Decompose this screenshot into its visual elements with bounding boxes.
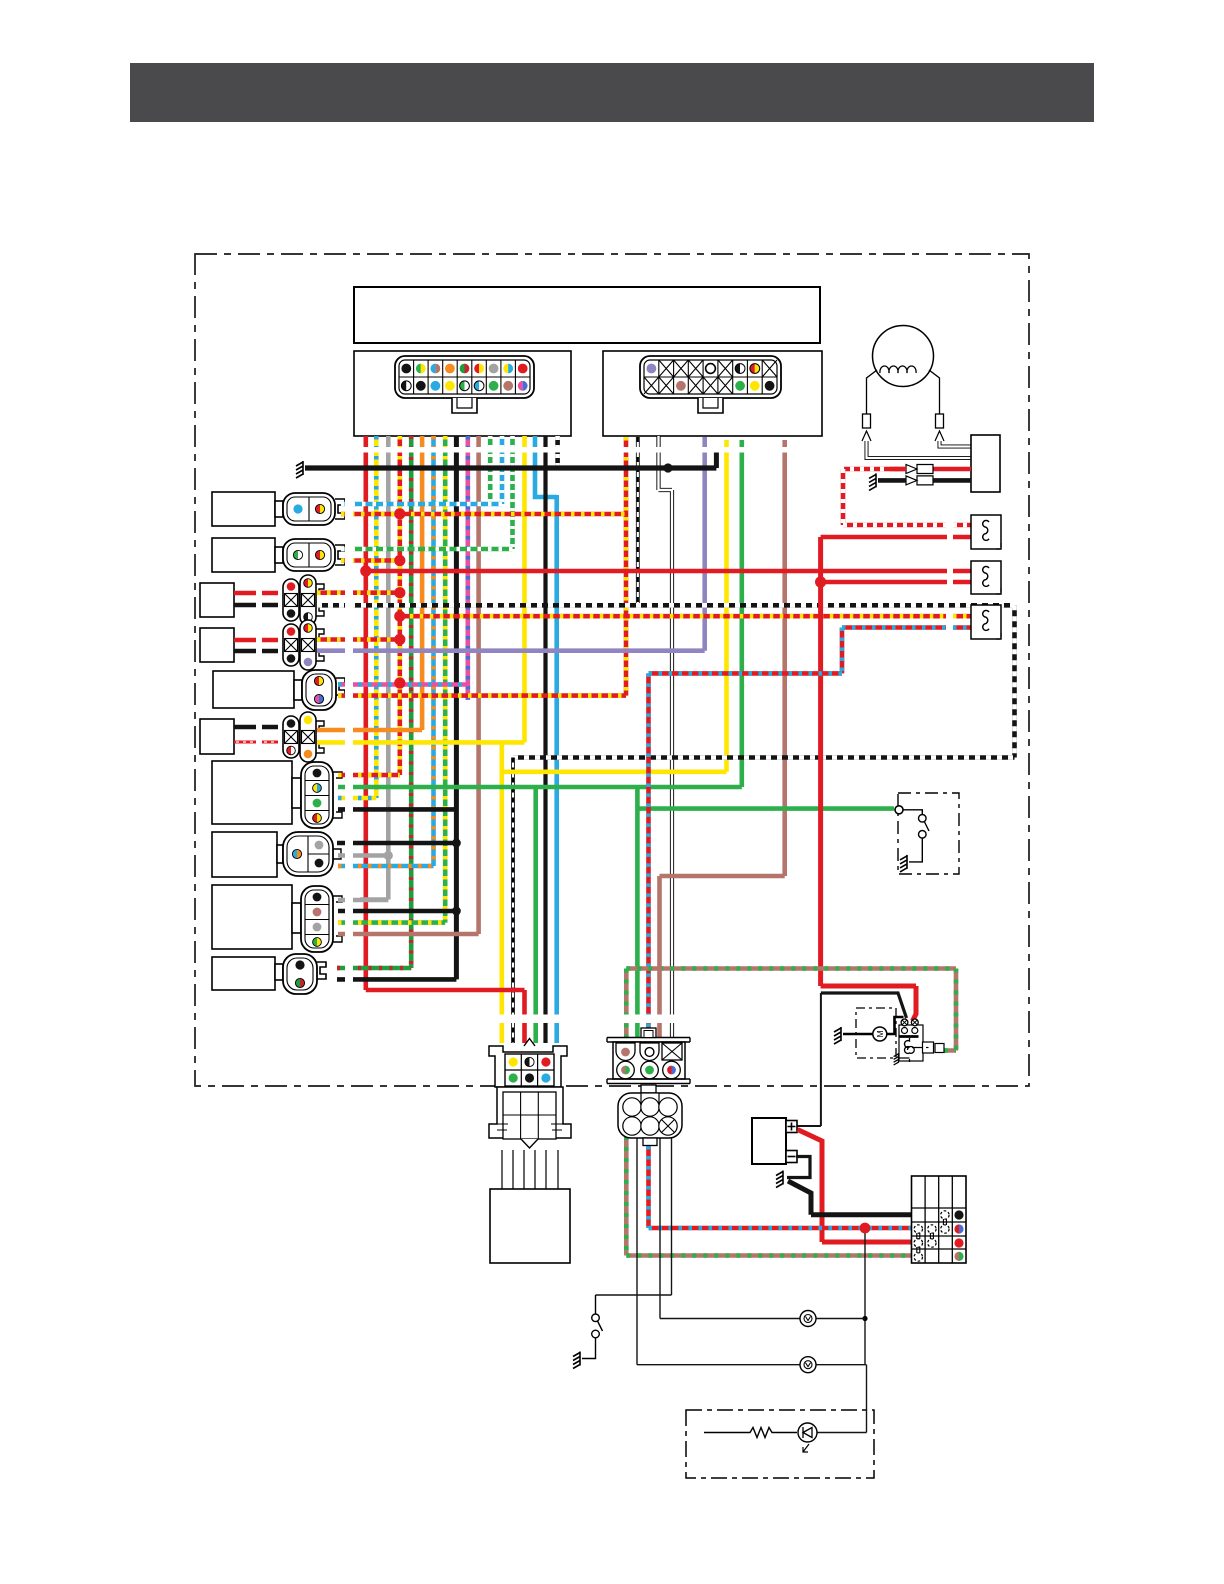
wire L vertical: [554, 495, 559, 1043]
ECU box: [354, 287, 820, 343]
ground starter relay: [894, 1053, 899, 1065]
component 9 connector: [301, 886, 333, 952]
engine stop switch: [595, 1295, 597, 1314]
wire R to coil 1: [821, 535, 971, 540]
resistor: [704, 1428, 797, 1438]
lead wires component 4: [234, 638, 278, 642]
wire Y/L component 7: [338, 796, 376, 801]
wire Br/G starter relay: [626, 969, 956, 1051]
wire B/W to joint connector: [511, 758, 515, 1044]
wire G to neutral switch: [637, 806, 894, 811]
junction Gy bus: [384, 851, 393, 860]
wire Br link: [660, 874, 785, 879]
wire P/L component 5: [338, 682, 468, 687]
wire R rectifier stub: [933, 467, 971, 472]
wire L vertical jog: [535, 436, 557, 497]
fuse box pin Br/G: [954, 1252, 959, 1261]
wire Or bus: [420, 436, 425, 730]
wire B component 7: [338, 807, 456, 812]
ECU connector B tab: [698, 398, 723, 413]
wire B engine stop switch: [596, 1136, 672, 1295]
wire W generator left: [867, 441, 972, 458]
component box 10: [212, 957, 275, 990]
junction B bus: [452, 839, 461, 848]
coupler lower bracket: [607, 1079, 690, 1084]
component box 2 (sensor): [212, 538, 275, 572]
wire R to starter relay: [821, 986, 916, 1021]
indicator lamp 1: [800, 1311, 816, 1327]
wire Gy link: [360, 897, 388, 902]
generator lead right: [929, 370, 940, 414]
ECU connector B box: [603, 351, 822, 436]
wire R/L to coil 3: [842, 625, 971, 630]
ground battery: [776, 1171, 783, 1188]
starter relay: [887, 1017, 904, 1034]
ground starter motor: [834, 1027, 841, 1044]
fuse 1: [914, 1225, 922, 1233]
generator lead left: [867, 370, 878, 414]
neutral switch box: [898, 793, 959, 874]
wire R red bus: [363, 436, 368, 990]
fuse box pin B: [954, 1210, 963, 1219]
wire Y/L bus: [374, 436, 379, 798]
component box 1 (sensor): [212, 492, 275, 526]
component box 6: [200, 719, 234, 754]
wire G/Y component 9: [338, 920, 445, 925]
ECU connector B pins row 1: [647, 364, 657, 374]
wire G/R bus: [409, 436, 414, 968]
wire R/Y bus: [397, 436, 402, 775]
wire Gy component 8: [338, 853, 388, 858]
generator coil: [880, 366, 916, 373]
component box 4: [200, 628, 234, 662]
component box 9: [212, 885, 292, 949]
joint connector lower housing: [489, 1087, 571, 1138]
component box 3: [200, 583, 234, 617]
component 7 connector: [301, 762, 333, 828]
ground neutral switch: [900, 855, 907, 872]
junction lamp feed: [862, 1316, 867, 1321]
component box 7: [212, 761, 292, 824]
wire Br/G vertical: [624, 969, 629, 1038]
junction R bus: [360, 565, 371, 576]
wire B battery positive: [798, 993, 821, 1126]
wire Br/G to fuse box: [626, 1136, 911, 1256]
coupler pins row 2: [617, 1061, 635, 1079]
coupler pins row 1: [616, 1043, 635, 1061]
ECU connector A pin housing: [395, 356, 534, 398]
wire G/W component 2: [341, 547, 513, 552]
wire Y to joint connector: [499, 742, 504, 1043]
neutral switch contacts: [919, 815, 927, 823]
wire R bullet lead: [890, 467, 906, 472]
wire Ch purple vertical: [702, 437, 707, 651]
ground rectifier: [869, 473, 876, 490]
wire R/Y component 7: [338, 773, 400, 778]
wire B component 8: [337, 841, 456, 846]
wire G to joint connector: [533, 787, 538, 1043]
coupler upper bracket: [607, 1038, 690, 1043]
wire B component 9: [338, 909, 456, 914]
ECU connector B pin housing: [640, 356, 781, 398]
wire B starter relay: [821, 993, 907, 1018]
wire W generator right: [940, 441, 972, 447]
bullet connector starter: [923, 1042, 934, 1053]
wire B/W stub: [555, 436, 560, 470]
wire R to joint connector: [366, 990, 525, 1043]
svg-text:M: M: [875, 1030, 885, 1037]
fuse main: [941, 1211, 949, 1219]
wire R to coil 2: [366, 569, 971, 574]
ECU connector A pins row 2: [401, 381, 406, 391]
wire Ch component 4: [317, 648, 705, 653]
wire L/W vertical: [500, 436, 505, 504]
wire R/L link: [649, 628, 843, 674]
joint connector pins top row: [509, 1057, 518, 1066]
wire L/Or bus: [431, 436, 436, 866]
component 3 connector: [283, 579, 299, 621]
device box below joint connector: [490, 1189, 570, 1263]
fuse box pin R: [954, 1238, 963, 1247]
wire B ground to fuse box: [788, 1181, 912, 1215]
title banner: [130, 63, 1094, 122]
battery positive terminal: [786, 1121, 797, 1133]
wire Br bus: [476, 436, 481, 934]
wire B battery negative: [787, 1157, 810, 1178]
wire Gy bus: [386, 436, 391, 900]
wire B lamp 1: [660, 1136, 865, 1319]
wire L/Or component 8: [338, 864, 434, 869]
wire G/W stub: [488, 436, 493, 500]
wire R/L to fuse box: [649, 1136, 912, 1228]
wire B rectifier stub: [933, 478, 971, 483]
fuse 3: [928, 1225, 936, 1233]
component 2 connector: [283, 539, 335, 571]
wire B lamp 2: [637, 1136, 867, 1365]
wire B riser: [714, 451, 719, 468]
wire Y component 6: [317, 740, 525, 745]
component box 5 (injector): [213, 671, 294, 708]
wire R main feed vertical: [818, 537, 823, 986]
wire R/Y component 1: [341, 512, 626, 517]
wire L/W component 1: [341, 502, 502, 507]
ECU connector A box: [354, 351, 571, 436]
ground main bus: [296, 461, 303, 478]
wire Br vertical right: [782, 440, 787, 876]
component 5 connector: [302, 670, 336, 710]
starter motor: [843, 1033, 873, 1036]
wire B/W component 3 loop: [317, 605, 1015, 757]
battery negative terminal: [786, 1151, 797, 1163]
bullet connector black: [906, 476, 933, 485]
component box 8: [212, 832, 277, 877]
component 6 connector: [283, 716, 299, 758]
junction R/Y bus dots: [394, 508, 405, 519]
starter motor box: [856, 1008, 896, 1058]
wire G component 7: [338, 785, 742, 790]
wire G vertical right: [739, 440, 744, 787]
fuse 2: [914, 1239, 922, 1247]
neutral switch terminal: [895, 806, 903, 814]
wire Y link: [502, 769, 727, 774]
wire R/Y component 2: [341, 558, 400, 563]
component 8 connector: [283, 832, 333, 876]
wire R/Y component 5: [338, 693, 626, 698]
wire G/W vertical: [510, 436, 515, 549]
wire Y vertical right: [724, 440, 729, 772]
LED indicator box: [686, 1410, 874, 1478]
wire Gy component 9: [338, 898, 388, 903]
wire R/W rectifier to coil 1: [843, 469, 971, 525]
wire R/Y component 4: [317, 637, 400, 642]
component 4 connector: [283, 624, 299, 666]
component 10 connector: [283, 954, 317, 994]
joint connector pins bottom row: [509, 1073, 518, 1082]
joint connector upper housing: [489, 1046, 567, 1087]
generator terminal right: [936, 414, 944, 428]
bullet connector red: [906, 465, 933, 474]
ECU connector B pins row 2: [644, 377, 659, 394]
wire B main ground bus: [305, 465, 716, 470]
wire crossing gap: [495, 1015, 688, 1024]
generator magneto: [873, 326, 934, 387]
indicator lamp 2: [800, 1357, 816, 1373]
lead wires component 6: [234, 725, 278, 729]
ECU connector A tab: [452, 398, 477, 413]
wire stub gaps: [358, 447, 564, 453]
junction main bus: [663, 463, 672, 472]
ECU connector A pins row 1: [401, 364, 411, 374]
frame: main dash-dot border box: [195, 254, 1029, 1086]
coupler mating half: [618, 1093, 682, 1138]
wire B bullet lead: [878, 478, 906, 483]
wire B LED: [817, 1365, 867, 1433]
starter relay coil: [904, 1038, 914, 1062]
wire R battery to fuse box: [798, 1130, 912, 1243]
junction R main feed: [815, 576, 826, 587]
fuse box: [912, 1176, 967, 1263]
wire R to coil 2 lower: [821, 580, 971, 585]
ignition coil 2: [971, 561, 1001, 594]
wire R/Y component 3: [317, 590, 400, 595]
wire B component 10: [337, 977, 456, 982]
ground engine stop switch: [573, 1352, 580, 1369]
wire G/R component 10: [337, 966, 411, 971]
rectifier regulator: [971, 435, 1000, 492]
wire Br component 9: [338, 932, 479, 937]
wire Br to coupler: [657, 876, 662, 1037]
wire R/Y ignition feed: [400, 614, 971, 619]
wire R/L vertical: [646, 673, 651, 1037]
LED: [798, 1423, 817, 1442]
generator terminal left: [863, 414, 871, 428]
component 1 connector: [283, 493, 335, 525]
wire G/Y bus: [443, 436, 448, 923]
wire B/W vertical right: [636, 437, 640, 605]
wire Or component 6: [317, 728, 422, 733]
battery: [752, 1118, 786, 1164]
ignition coil 3: [971, 605, 1001, 639]
wire G to coupler: [635, 787, 640, 1037]
wire Y vertical: [522, 436, 527, 742]
wire B black bus: [454, 436, 459, 979]
joint connector fan-out leads: [501, 1150, 503, 1189]
lead wires component 3: [234, 591, 278, 595]
fuse box pin R/L: [954, 1224, 959, 1233]
wire B lamp feed: [864, 1228, 866, 1365]
wire P/L bus: [465, 436, 470, 700]
wire B vertical: [543, 436, 547, 1043]
ignition coil 1: [971, 515, 1001, 549]
wire R/Y vertical right: [624, 437, 629, 696]
wire W white vertical: [659, 436, 673, 1037]
